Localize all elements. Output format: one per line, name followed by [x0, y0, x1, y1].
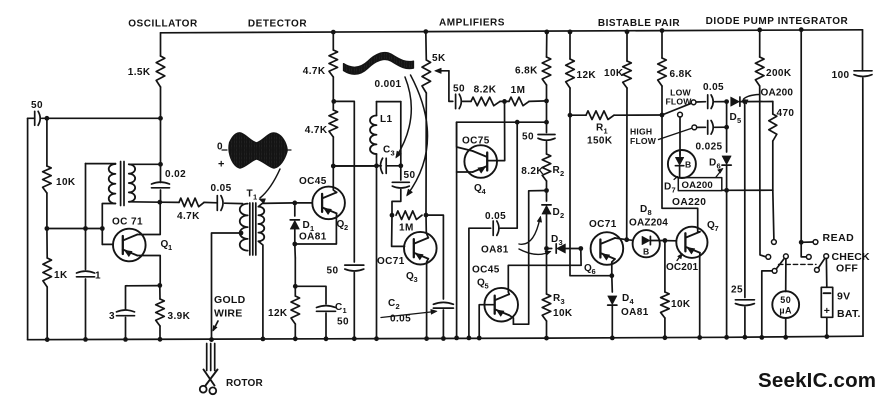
- resistor 1M (detector): [396, 211, 422, 220]
- svg-text:3.9K: 3.9K: [168, 311, 191, 322]
- 5K wiper arm: [449, 71, 453, 102]
- svg-text:6.8K: 6.8K: [515, 66, 538, 77]
- svg-text:C: C: [335, 302, 343, 313]
- wire Q3 emitter to common: [427, 259, 429, 339]
- svg-text:4.7K: 4.7K: [177, 211, 200, 222]
- svg-text:50: 50: [522, 132, 534, 143]
- oscillator transformer core: [120, 162, 122, 206]
- boxed label OA200 (D7): [678, 178, 722, 191]
- diode D7 in circle: [668, 150, 696, 178]
- svg-text:7: 7: [672, 186, 677, 195]
- wire base node down to Q5 collector wire: [508, 249, 581, 289]
- svg-text:READ: READ: [823, 232, 855, 244]
- node D6 bottom: [724, 188, 729, 193]
- contact circle pole: [678, 112, 683, 117]
- node R1 left: [568, 113, 573, 118]
- arrow from blob to T1: [260, 169, 280, 198]
- node junction x160 y118: [158, 116, 163, 121]
- svg-text:B: B: [643, 247, 650, 257]
- inductor L1 coil: [376, 102, 378, 116]
- ganged switch dashed link: [779, 263, 817, 265]
- svg-text:OC75: OC75: [462, 136, 490, 147]
- resistor 470: [772, 102, 774, 115]
- svg-text:6: 6: [592, 267, 597, 276]
- rotor shaft triple lines: [206, 344, 208, 371]
- switch arm H to G: [818, 258, 825, 268]
- wire Q2 collector up: [333, 166, 336, 192]
- capacitor 1: [85, 164, 87, 270]
- wire right winding top to x160: [129, 163, 161, 165]
- wire left edge down: [28, 117, 35, 119]
- svg-text:SeekIC.com: SeekIC.com: [758, 369, 876, 392]
- wire 50-cap to 1.5K node: [47, 117, 161, 119]
- node C2 bottom: [441, 336, 446, 341]
- switch arm low flow: [662, 104, 690, 115]
- wire secondary bottom to common: [258, 241, 263, 339]
- switch contact A: [772, 240, 777, 245]
- svg-text:3: 3: [561, 297, 566, 306]
- svg-text:1M: 1M: [399, 223, 414, 234]
- svg-text:12K: 12K: [268, 308, 288, 319]
- resistor 1.5K: [156, 56, 165, 87]
- capacitor C1: [317, 306, 336, 308]
- svg-text:5: 5: [485, 282, 490, 291]
- diode D5 OA200: [731, 97, 740, 106]
- svg-text:7: 7: [715, 224, 720, 233]
- node detector collector junction: [331, 164, 336, 169]
- switch contact F: [806, 255, 811, 260]
- resistor 8.2K (amplifier): [471, 97, 500, 106]
- svg-text:2: 2: [560, 211, 565, 220]
- svg-text:FLOW: FLOW: [665, 97, 692, 107]
- svg-text:0.05: 0.05: [703, 82, 724, 93]
- node Q6 base: [578, 246, 583, 251]
- svg-text:D: D: [709, 158, 717, 169]
- svg-text:470: 470: [777, 108, 795, 119]
- wire Q5 collector: [507, 289, 510, 295]
- switch contact E READ: [813, 240, 818, 245]
- svg-text:D: D: [303, 220, 311, 231]
- svg-text:2: 2: [344, 223, 349, 232]
- resistor 1K: [43, 258, 52, 287]
- diode D3: [547, 248, 552, 250]
- svg-text:10K: 10K: [553, 308, 573, 319]
- svg-text:0: 0: [217, 142, 223, 153]
- wire 10K bottom to transformer branch: [47, 228, 102, 230]
- resistor 10K (oscillator): [46, 118, 48, 166]
- wire Q4 left column to common: [456, 122, 458, 338]
- resistor R1 150K: [570, 114, 586, 116]
- wire 10K to Q6 collector: [626, 88, 628, 240]
- wire gold wire column: [212, 233, 242, 340]
- node L1 bottom left: [374, 163, 379, 168]
- svg-text:4: 4: [482, 187, 487, 196]
- node cap1 bottom: [83, 337, 88, 342]
- switch contact C: [784, 254, 789, 259]
- svg-text:D: D: [664, 182, 672, 193]
- svg-text:OA81: OA81: [621, 307, 649, 318]
- node 1K bottom: [45, 337, 50, 342]
- node R2 bottom: [544, 188, 549, 193]
- resistor 12K (detector): [294, 244, 297, 258]
- wire to contact F: [801, 242, 806, 257]
- resistor 4.7K upper (detector): [331, 30, 336, 35]
- waveform ribbon (detector output): [344, 53, 414, 75]
- node 8.2K / 1M junction: [502, 99, 507, 104]
- svg-text:OC201: OC201: [666, 262, 699, 273]
- svg-text:5K: 5K: [432, 53, 446, 64]
- svg-text:8.2K: 8.2K: [474, 85, 497, 96]
- svg-text:OC71: OC71: [377, 256, 405, 267]
- node junction 10K top: [45, 116, 50, 121]
- svg-text:BAT.: BAT.: [837, 308, 861, 320]
- svg-text:BISTABLE PAIR: BISTABLE PAIR: [598, 18, 681, 29]
- svg-text:1: 1: [253, 193, 258, 202]
- svg-text:DIODE PUMP INTEGRATOR: DIODE PUMP INTEGRATOR: [706, 16, 849, 27]
- oscillator transformer left winding: [109, 164, 116, 204]
- svg-text:0.001: 0.001: [374, 79, 401, 90]
- svg-text:0.05: 0.05: [211, 183, 232, 194]
- svg-text:FLOW: FLOW: [630, 136, 657, 146]
- switch contact G CHECK: [824, 254, 829, 259]
- wire L1 tank bottom: [333, 165, 377, 167]
- svg-text:3: 3: [414, 275, 419, 284]
- switch contact D: [772, 269, 777, 274]
- node cap3 bottom: [123, 337, 128, 342]
- svg-text:2: 2: [396, 302, 401, 311]
- svg-text:50: 50: [404, 170, 416, 181]
- wire Q6 collector: [615, 238, 627, 240]
- diode D2: [546, 191, 548, 202]
- wire Q4 emitter: [457, 171, 473, 173]
- wire top supply rail: [161, 30, 863, 33]
- svg-text:OC45: OC45: [472, 265, 500, 276]
- node D5 anode: [724, 99, 729, 104]
- wire C2/L1 column to common: [376, 166, 378, 339]
- wire R2 node to Q5 emitter loop: [513, 191, 546, 325]
- arrow from ribbon to C3 node: [397, 77, 412, 157]
- svg-text:200K: 200K: [766, 68, 792, 79]
- svg-text:OA200: OA200: [761, 87, 794, 98]
- svg-text:5: 5: [737, 116, 742, 125]
- switch contact B: [766, 255, 771, 260]
- svg-text:4.7K: 4.7K: [305, 125, 328, 136]
- svg-text:10K: 10K: [56, 177, 76, 188]
- arrow from ribbon to 1M corner: [408, 75, 428, 195]
- wire Q1 base: [102, 243, 113, 245]
- svg-text:AMPLIFIERS: AMPLIFIERS: [439, 18, 505, 29]
- wire Q2 emitter: [295, 213, 337, 244]
- node D3 anode: [544, 246, 549, 251]
- svg-text:B: B: [685, 160, 692, 170]
- svg-text:OA220: OA220: [672, 197, 706, 208]
- wire Q3 collector to 1M node: [426, 215, 428, 238]
- node Q6 collector / D8 anode: [624, 237, 629, 242]
- svg-text:D: D: [553, 207, 561, 218]
- wire 200K column to switch contact B: [760, 86, 766, 257]
- node junction y228.5 left: [45, 226, 50, 231]
- oscillator transformer right winding: [129, 164, 135, 202]
- wire Q7 emitter to common: [699, 253, 701, 338]
- svg-text:OA81: OA81: [299, 232, 327, 243]
- node C3 right / 50cap top: [398, 163, 403, 168]
- svg-text:+: +: [824, 305, 831, 317]
- wire Q3 base: [392, 215, 405, 246]
- battery 9V: [821, 287, 832, 317]
- svg-text:50: 50: [31, 100, 43, 111]
- resistor 6.8K (amplifier): [544, 30, 549, 35]
- wire 1M node to C2 column: [426, 215, 443, 299]
- wire right winding bottom: [129, 201, 160, 203]
- diode D1 OA81: [294, 203, 296, 216]
- svg-text:C: C: [388, 298, 396, 309]
- node 1M left: [390, 213, 395, 218]
- wire Q1 collector to 0.02 node: [137, 202, 160, 234]
- node 1M right top of R2 chain: [544, 99, 549, 104]
- resistor 10K (bistable): [625, 29, 630, 34]
- transformer T1 core: [249, 203, 251, 255]
- svg-text:OSCILLATOR: OSCILLATOR: [128, 19, 198, 30]
- wire battery top: [825, 259, 827, 288]
- svg-text:2: 2: [560, 169, 565, 178]
- svg-text:100: 100: [832, 70, 850, 81]
- transformer T1 primary winding: [240, 204, 248, 251]
- contact circle high flow: [692, 125, 697, 130]
- svg-text:D: D: [551, 234, 559, 245]
- node D1 top: [292, 201, 297, 206]
- svg-text:GOLD: GOLD: [214, 294, 246, 306]
- diode D6 OA200: [726, 102, 728, 152]
- wire secondary top to Q2 base: [258, 203, 312, 207]
- svg-text:C: C: [383, 145, 391, 156]
- wire left winding bottom to base column: [102, 204, 115, 245]
- svg-text:DETECTOR: DETECTOR: [248, 19, 307, 30]
- wire 12K to Q6 emitter: [570, 88, 612, 276]
- node right winding top: [158, 162, 163, 167]
- svg-text:OAZ204: OAZ204: [629, 218, 668, 229]
- wire Q5 emitter: [509, 315, 513, 324]
- wire meter column: [785, 259, 787, 292]
- resistor 12K (bistable): [568, 30, 573, 35]
- node 3.9K bottom: [158, 337, 163, 342]
- svg-text:9V: 9V: [837, 291, 850, 303]
- resistor 6.8K (bistable): [660, 28, 665, 33]
- node D5 cathode: [742, 99, 747, 104]
- wire D5 cathode to 470: [745, 101, 773, 103]
- node 4.7K junction: [331, 99, 336, 104]
- wire 6.8K column to Q7 collector: [662, 115, 698, 227]
- svg-text:ROTOR: ROTOR: [226, 378, 264, 389]
- svg-text:50: 50: [337, 317, 349, 328]
- svg-text:CHECK: CHECK: [832, 251, 871, 263]
- resistor 200K: [757, 28, 762, 33]
- svg-text:OC71: OC71: [589, 219, 617, 230]
- svg-text:0.05: 0.05: [485, 211, 506, 222]
- svg-text:OC45: OC45: [299, 176, 327, 187]
- potentiometer 5K: [425, 32, 428, 60]
- resistor 1M (amplifier): [509, 97, 529, 106]
- switch contact H OFF: [815, 268, 820, 273]
- transformer T1 secondary winding: [258, 207, 264, 242]
- wire bottom common rail: [28, 336, 863, 340]
- svg-text:50: 50: [453, 84, 465, 95]
- switch arm D to C: [776, 258, 784, 269]
- node T1 primary tap: [239, 231, 244, 236]
- svg-text:50: 50: [327, 266, 339, 277]
- svg-text:8: 8: [648, 208, 653, 217]
- node READ branch: [799, 240, 804, 245]
- svg-text:µA: µA: [779, 306, 792, 316]
- node switch pivot: [660, 113, 665, 118]
- wire Q4 collector loop top: [457, 122, 473, 151]
- resistor 3.9K: [159, 285, 161, 299]
- node D1 bottom / Q2 emitter node: [292, 242, 297, 247]
- svg-text:+: +: [218, 159, 225, 171]
- node D8 cathode / 10K top: [663, 238, 668, 243]
- node 50 cap bottom: [352, 336, 357, 341]
- svg-text:3: 3: [559, 238, 564, 247]
- svg-text:D: D: [730, 112, 738, 123]
- node 1M right: [424, 213, 429, 218]
- svg-text:OC 71: OC 71: [112, 217, 143, 228]
- svg-text:12K: 12K: [577, 70, 597, 81]
- svg-text:4: 4: [630, 297, 635, 306]
- svg-text:1.5K: 1.5K: [128, 67, 151, 78]
- wire emitter node to cap3 branch: [126, 286, 160, 310]
- svg-text:WIRE: WIRE: [214, 308, 243, 320]
- wire READ switch column: [799, 27, 804, 32]
- svg-text:OFF: OFF: [836, 263, 858, 275]
- diode D8 OAZ204 in circle: [627, 239, 633, 242]
- svg-text:D: D: [640, 204, 648, 215]
- resistor 10K (Q7 base): [664, 241, 666, 293]
- wire contact D to common: [762, 271, 772, 338]
- svg-text:1: 1: [343, 306, 348, 315]
- scissors rotor symbol: [204, 370, 215, 386]
- svg-text:1: 1: [95, 271, 101, 282]
- svg-text:1M: 1M: [511, 85, 526, 96]
- node 5K top: [423, 29, 428, 34]
- wire Q6 emitter: [612, 259, 615, 276]
- wire Q7 collector: [698, 227, 700, 232]
- resistor R3 10K: [546, 249, 548, 295]
- svg-text:10K: 10K: [604, 68, 624, 79]
- svg-text:0.02: 0.02: [165, 169, 186, 180]
- meter 50uA: [772, 291, 799, 318]
- contact circle low flow: [691, 100, 696, 105]
- diode D4 OA81: [611, 276, 614, 292]
- svg-text:1: 1: [604, 127, 609, 136]
- wire Q1 emitter down: [137, 256, 160, 286]
- inductor L1 shield box: [377, 101, 401, 103]
- svg-text:D: D: [622, 293, 630, 304]
- wire C1 branch: [295, 286, 326, 304]
- svg-text:3: 3: [391, 149, 396, 158]
- svg-text:6.8K: 6.8K: [670, 69, 693, 80]
- svg-text:8.2K: 8.2K: [521, 166, 544, 177]
- svg-text:4.7K: 4.7K: [303, 66, 326, 77]
- wire D6 bottom to 470 bottom: [727, 189, 773, 191]
- wire left winding top to x85.5: [86, 163, 116, 165]
- resistor 4.7K (oscillator output): [179, 198, 204, 207]
- svg-text:OA81: OA81: [481, 245, 509, 256]
- resistor R2 8.2K: [542, 154, 551, 181]
- resistor 4.7K lower (detector): [329, 110, 338, 137]
- wire D6 node to common rail: [726, 190, 728, 337]
- wire pole to D7: [679, 117, 681, 157]
- svg-text:1: 1: [168, 243, 173, 252]
- svg-text:25: 25: [731, 285, 743, 296]
- dashed centerline of blob: [222, 149, 291, 151]
- svg-text:50: 50: [780, 295, 791, 305]
- node Q1 emitter junction: [157, 283, 162, 288]
- wire 470 column to switch contact A: [773, 190, 774, 239]
- node 0.025 right: [724, 125, 729, 130]
- wire Q4 base from 8.2K node: [488, 101, 505, 160]
- svg-text:L1: L1: [380, 114, 393, 125]
- modulated waveform blob: [229, 133, 287, 168]
- svg-text:OA200: OA200: [682, 180, 713, 191]
- svg-text:3: 3: [109, 311, 115, 322]
- svg-text:1K: 1K: [54, 270, 68, 281]
- wire Q5 base to common: [479, 305, 495, 338]
- node junction 0.02 bottom: [157, 200, 162, 205]
- node Q6 emitter junction: [609, 273, 614, 278]
- svg-text:150K: 150K: [587, 136, 613, 147]
- svg-text:10K: 10K: [671, 299, 691, 310]
- wire to 50-cap column: [334, 101, 355, 262]
- svg-text:0.025: 0.025: [695, 142, 722, 153]
